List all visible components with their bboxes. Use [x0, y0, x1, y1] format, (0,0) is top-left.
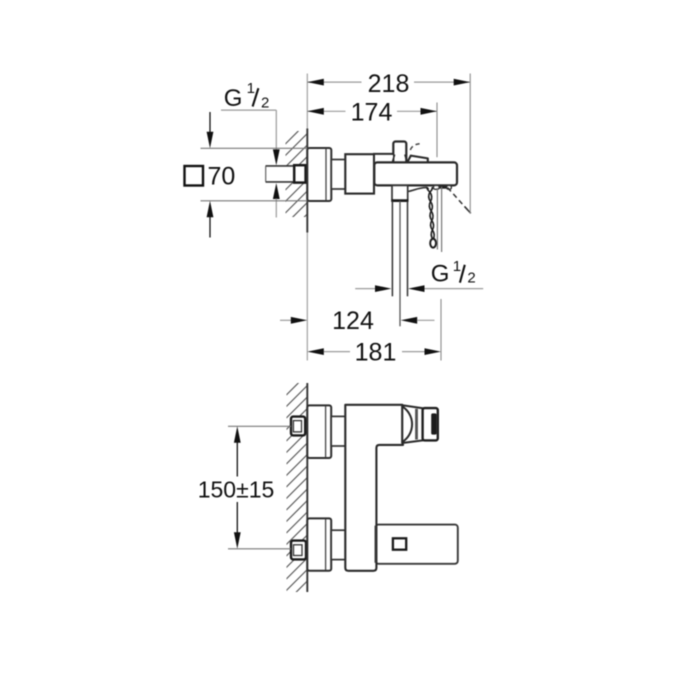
svg-text:150±15: 150±15 — [198, 476, 275, 502]
svg-text:1: 1 — [453, 258, 461, 275]
svg-text:174: 174 — [351, 98, 393, 126]
svg-text:218: 218 — [368, 70, 410, 98]
svg-text:G: G — [431, 260, 450, 287]
svg-text:181: 181 — [355, 339, 397, 367]
svg-text:G: G — [224, 85, 243, 112]
svg-text:2: 2 — [261, 94, 269, 111]
svg-text:124: 124 — [332, 307, 374, 335]
svg-text:1: 1 — [247, 80, 255, 97]
svg-text:70: 70 — [208, 163, 236, 191]
svg-text:2: 2 — [467, 270, 475, 287]
